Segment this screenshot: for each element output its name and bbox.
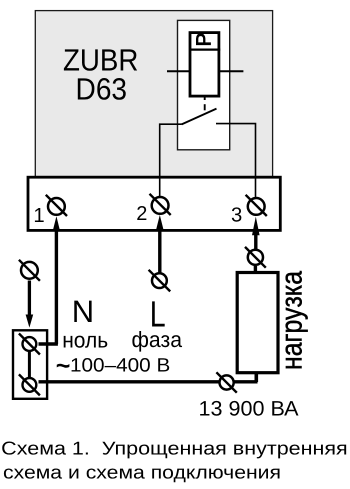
terminal 1 screw [48,198,65,215]
coil pin right [220,70,243,72]
svg-text:нагрузка: нагрузка [276,271,309,370]
svg-text:13 900 ВА: 13 900 ВА [199,397,299,420]
junction screw B2 [23,378,37,392]
svg-text:N: N [72,294,94,329]
svg-text:P: P [193,33,216,47]
terminal 2 screw [152,197,169,214]
relay switch S1 lever [182,109,217,125]
load bottom stub [254,372,258,382]
external screw E3 (load top) [248,250,263,265]
external screw E1 (N input) [21,262,38,279]
wire screw E3 to load [254,266,257,272]
terminal strip [28,177,280,230]
relay U1 outline [178,20,230,149]
svg-text:100–400 В: 100–400 В [70,356,170,377]
coil actuator tick [204,96,206,100]
coil divider line [189,48,220,50]
coil actuator dashed link [204,104,206,110]
terminal 3 screw [248,198,265,215]
switch left contact wire [160,124,182,197]
junction box [13,330,47,399]
wire stub into terminal 2 [159,178,161,198]
svg-text:Схема 1. Упрощенная внутрення: Схема 1. Упрощенная внутренняя [1,438,348,459]
relay coil K1 [190,33,219,97]
svg-text:1: 1 [33,205,44,227]
device body ZUBR D63 [35,11,272,177]
svg-text:3: 3 [231,205,242,227]
coil pin left [167,70,189,72]
bottom wire from junction B2 to load [39,380,258,383]
wire from junction B1 to N riser [39,342,58,345]
wire stub into terminal 3 [255,178,257,199]
switch right contact wire [216,124,256,198]
svg-text:фаза: фаза [132,327,183,352]
wire N down into junction box with arrow [28,281,31,318]
wire N up to terminal 1 with arrow [55,228,58,344]
svg-text:D63: D63 [76,71,128,106]
svg-text:ноль: ноль [62,328,108,353]
junction link wire [28,351,31,378]
load resistor [237,273,278,373]
external screw E2 (L input) [152,273,167,288]
external screw E4 (load line) [220,375,234,389]
junction screw B1 [23,337,37,351]
svg-text:2: 2 [136,203,147,225]
wire load up to terminal 3 with arrow [254,231,257,250]
svg-text:~: ~ [56,352,71,380]
wire L up to terminal 2 with arrow [158,228,161,273]
svg-text:схема и схема подключения: схема и схема подключения [3,461,281,482]
